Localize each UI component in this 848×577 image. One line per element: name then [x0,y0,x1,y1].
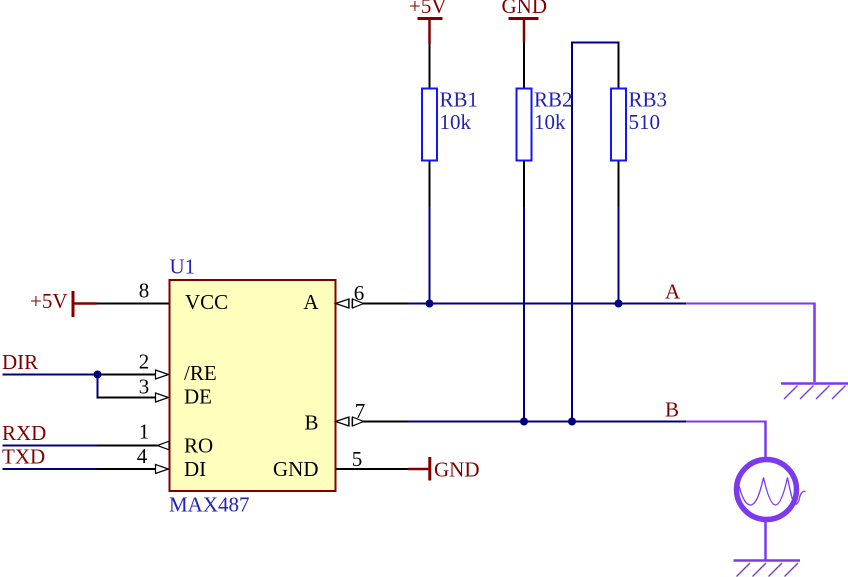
svg-text:GND: GND [273,457,319,481]
svg-text:+5V: +5V [30,289,68,313]
svg-text:VCC: VCC [185,290,228,314]
svg-text:MAX487: MAX487 [169,493,250,517]
svg-text:U1: U1 [170,255,196,279]
svg-text:RO: RO [184,434,213,458]
svg-text:DI: DI [184,457,206,481]
svg-text:GND: GND [502,0,548,18]
svg-text:B: B [304,411,318,435]
svg-text:TXD: TXD [2,445,45,469]
svg-text:DE: DE [184,385,212,409]
svg-text:6: 6 [354,281,365,305]
svg-text:RB1: RB1 [440,88,479,112]
svg-text:RB3: RB3 [629,88,668,112]
svg-text:RXD: RXD [2,421,46,445]
svg-text:10k: 10k [440,110,472,134]
svg-text:/RE: /RE [184,361,217,385]
svg-text:+5V: +5V [409,0,447,18]
svg-text:7: 7 [355,399,366,423]
svg-text:DIR: DIR [2,350,38,374]
svg-text:8: 8 [139,279,150,303]
svg-text:3: 3 [139,375,150,399]
svg-text:10k: 10k [534,110,566,134]
svg-text:RB2: RB2 [534,88,573,112]
svg-text:4: 4 [137,444,148,468]
svg-text:A: A [303,290,319,314]
svg-text:A: A [665,280,681,304]
svg-text:510: 510 [629,110,661,134]
svg-text:1: 1 [139,420,150,444]
svg-text:GND: GND [434,458,480,482]
svg-text:B: B [665,398,679,422]
svg-text:2: 2 [139,350,150,374]
svg-text:5: 5 [352,447,363,471]
